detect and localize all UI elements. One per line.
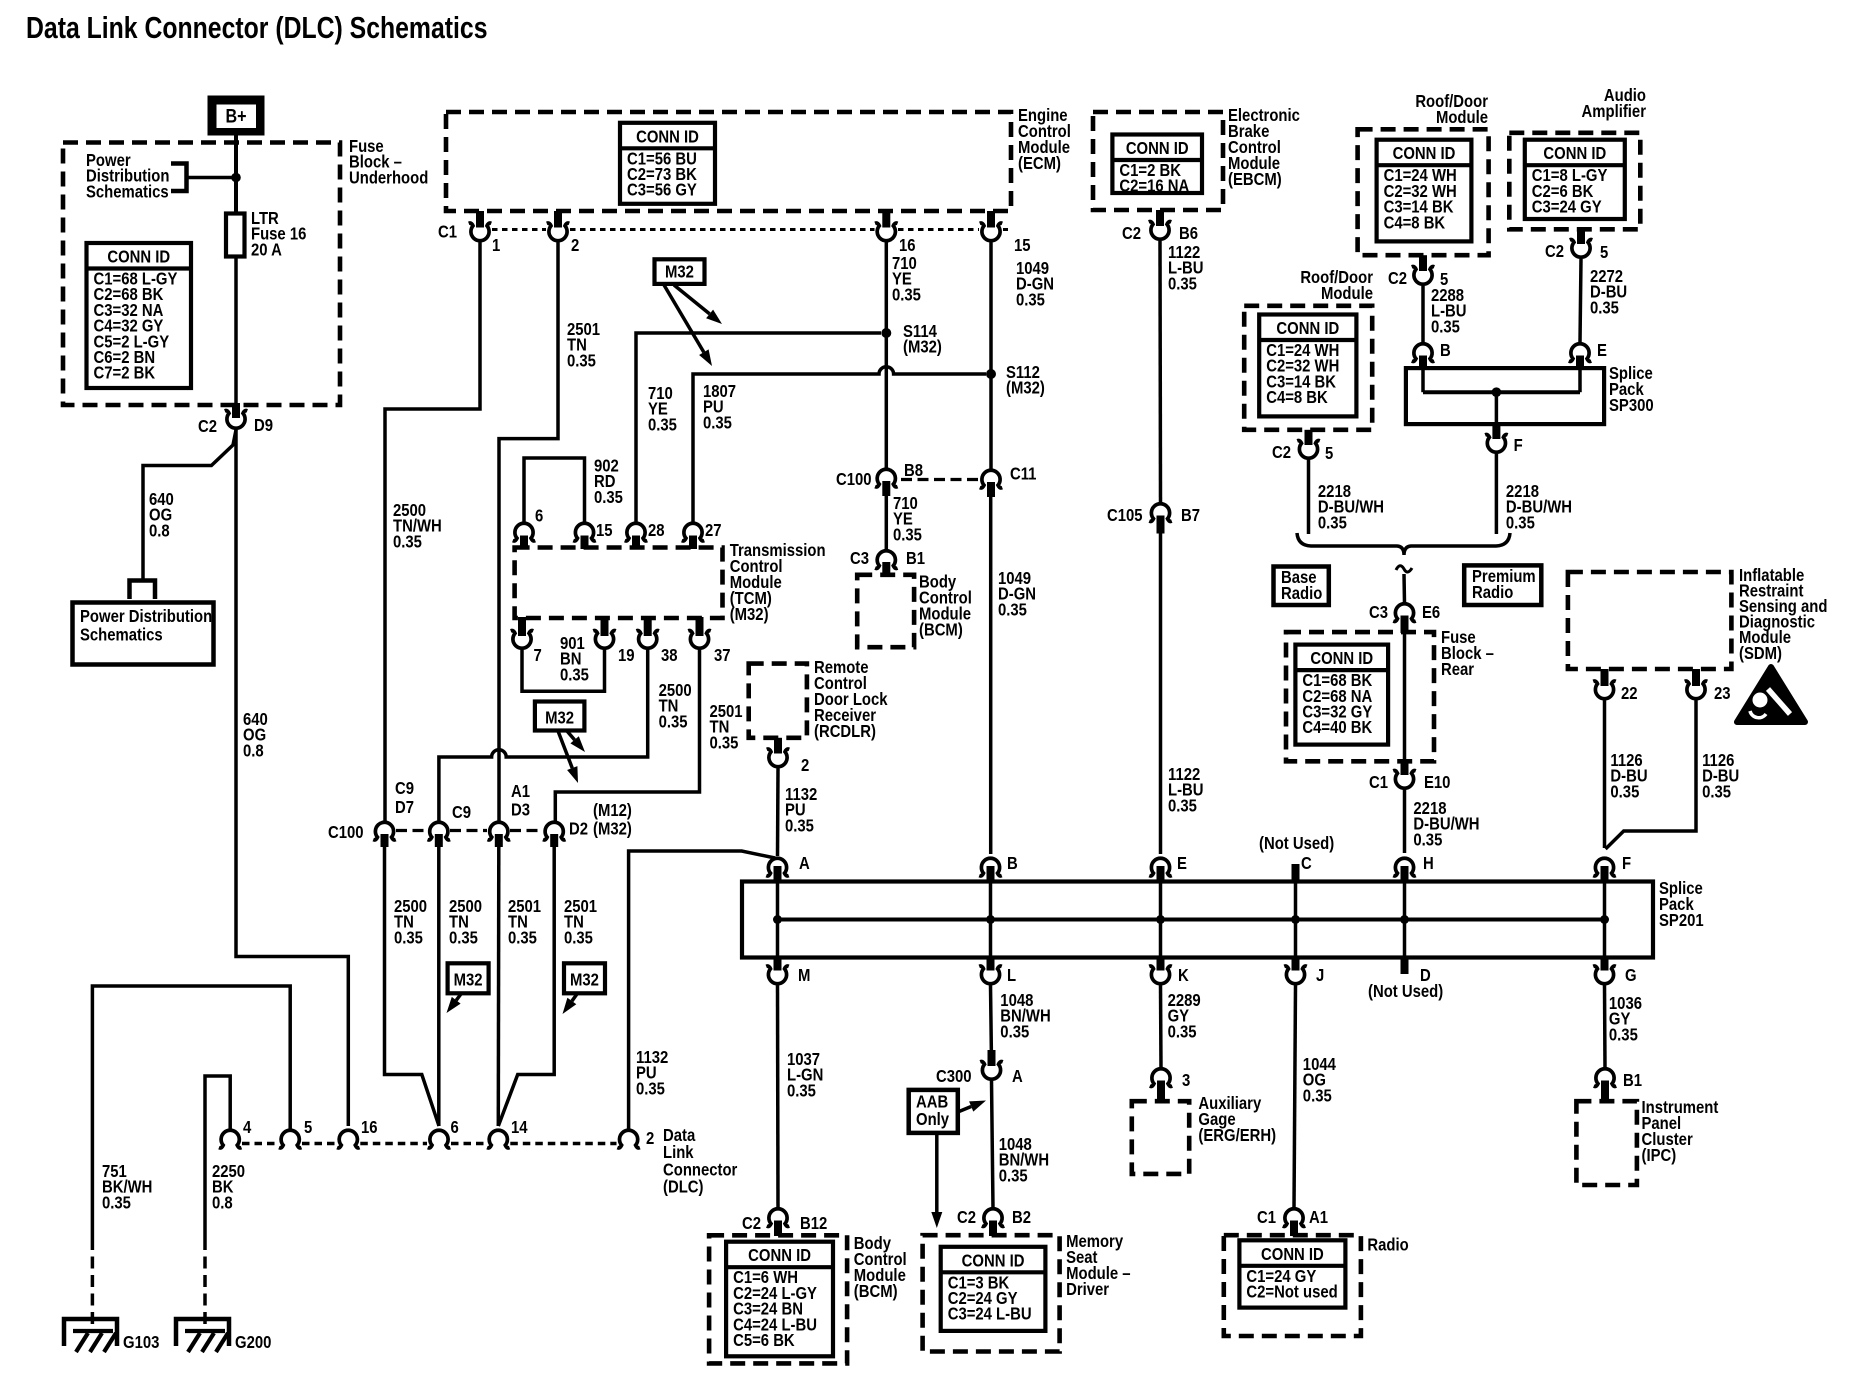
SP201 internal wire x=990.5 — [989, 883, 993, 956]
svg-text:20 A: 20 A — [251, 240, 282, 259]
wire 2500 TN C100 D7 to DLC pin6 (jog) — [385, 847, 440, 1126]
wire 2500 TN C100 C9 to DLC pin6 — [437, 847, 441, 1126]
svg-text:C11: C11 — [1010, 464, 1036, 483]
svg-text:J: J — [1316, 966, 1324, 985]
svg-text:19: 19 — [618, 646, 635, 665]
svg-text:B2: B2 — [1012, 1208, 1031, 1227]
splice option squiggle — [1396, 566, 1412, 572]
junction node on B+ wire — [231, 173, 241, 183]
SP201 bottom pin K cup — [1149, 966, 1172, 984]
TCM top pin 27 stub — [689, 536, 697, 550]
connector C1 E10 cup — [1393, 771, 1416, 789]
svg-text:C3=56 GY: C3=56 GY — [627, 181, 697, 200]
svg-text:0.35: 0.35 — [1590, 298, 1619, 317]
ground G103 — [64, 1319, 117, 1346]
inline connector C100 dashed line (right) — [901, 478, 979, 481]
module box Body Control Module (bottom) — [709, 1235, 847, 1363]
SP201 bottom pin J stub — [1292, 957, 1300, 971]
svg-text:(M32): (M32) — [903, 338, 942, 357]
EBCM C2/B6 cup — [1149, 222, 1172, 240]
TCM top pin 6 stub — [520, 536, 528, 550]
svg-text:22: 22 — [1621, 684, 1638, 703]
SP201 bottom pin G cup — [1593, 966, 1616, 984]
module box Roof/Door Module (lower) — [1244, 306, 1372, 430]
wire 1037 L-GN M to BCM — [776, 986, 780, 1209]
svg-text:C1: C1 — [1369, 773, 1388, 792]
callout box M32 (DLC right) — [564, 963, 605, 993]
connector C100 D2 stub — [550, 834, 558, 847]
svg-text:15: 15 — [1014, 236, 1031, 255]
TCM bottom pin 7 cup — [511, 631, 534, 649]
data link connector dashed face segment — [242, 1142, 279, 1146]
SP201 top pin A stub — [774, 866, 782, 882]
connector C1 A1 stub — [1290, 1221, 1298, 1237]
RCDLR pin 2 cup — [767, 749, 790, 767]
connector C300 A cup — [980, 1062, 1003, 1080]
wire 902 RD TCM pin6 to pin15 loop — [524, 458, 585, 522]
svg-text:E6: E6 — [1422, 603, 1440, 622]
svg-text:A1: A1 — [1309, 1208, 1328, 1227]
module box Transmission Control Module — [515, 548, 723, 619]
svg-text:B12: B12 — [800, 1214, 827, 1233]
svg-text:16: 16 — [361, 1118, 378, 1137]
splice SP300 pin B stub — [1419, 356, 1427, 370]
svg-text:G: G — [1625, 966, 1637, 985]
svg-text:G200: G200 — [235, 1333, 271, 1352]
arrow AAB to memory seat connector — [935, 1133, 939, 1212]
svg-text:C3=24 GY: C3=24 GY — [1532, 198, 1602, 217]
svg-text:(BCM): (BCM) — [854, 1282, 898, 1301]
callout box M32 (upper) — [655, 259, 705, 284]
svg-text:CONN ID: CONN ID — [107, 247, 170, 266]
audio amp C2/5 cup — [1570, 240, 1593, 258]
svg-text:Schematics: Schematics — [86, 182, 169, 201]
reference box Power Distribution Schematics — [73, 603, 214, 665]
svg-text:0.35: 0.35 — [648, 415, 677, 434]
SP201 bottom pin L stub — [987, 957, 995, 971]
svg-text:6: 6 — [535, 506, 543, 525]
conn id table roof/door lower — [1259, 315, 1356, 417]
wire TCM pin28 to S114 — [636, 333, 881, 522]
ground lead G103 dashed — [91, 1238, 95, 1326]
splice option brace — [1297, 533, 1510, 555]
SP201 bottom pin D stub — [1401, 957, 1409, 974]
inline connector C100 dashed line (left) — [396, 829, 427, 832]
ECM pin 1 stub — [476, 211, 484, 228]
SP201 bus junction x=990.5 — [986, 915, 995, 924]
wire 1036 GY G to IPC — [1603, 986, 1607, 1069]
svg-text:C300: C300 — [936, 1067, 972, 1086]
SP201 bus junction x=1404.5 — [1400, 915, 1409, 924]
svg-text:(IPC): (IPC) — [1642, 1146, 1677, 1165]
svg-text:(M12): (M12) — [593, 801, 632, 820]
roof/door lower C2/5 stub — [1305, 430, 1313, 445]
svg-text:H: H — [1423, 854, 1434, 873]
connector C100 D3 cup — [488, 822, 511, 840]
connector DLC pin 2 cup — [617, 1130, 640, 1148]
wire through fuse block rear — [1403, 633, 1407, 761]
SDM pin 22 cup — [1593, 681, 1616, 699]
wire 1049 D-GN C11 to splice B — [989, 497, 993, 854]
svg-text:C2: C2 — [742, 1214, 761, 1233]
svg-text:0.35: 0.35 — [393, 532, 422, 551]
wire 2289 GY K to aux gage — [1159, 986, 1163, 1069]
connector C105 B7 cup — [1149, 504, 1172, 522]
svg-text:M32: M32 — [454, 970, 483, 989]
svg-text:CONN ID: CONN ID — [636, 127, 699, 146]
wire 710 YE B8 to BCM C3/B1 — [885, 496, 889, 550]
junction S114 — [881, 328, 891, 338]
module box Engine Control Module — [446, 112, 1011, 211]
wire 1807 PU TCM pin27 to S112 (with hop) — [693, 367, 986, 522]
SP201 bottom pin M stub — [774, 957, 782, 971]
TCM top pin 28 stub — [632, 536, 640, 550]
svg-text:0.35: 0.35 — [1702, 782, 1731, 801]
SP201 internal wire x=1160.5 — [1159, 883, 1163, 956]
svg-text:C2: C2 — [1272, 443, 1291, 462]
warning triangle airbag — [1737, 667, 1805, 722]
svg-text:Amplifier: Amplifier — [1582, 102, 1647, 121]
svg-text:0.35: 0.35 — [508, 928, 537, 947]
svg-text:C9: C9 — [395, 779, 414, 798]
svg-text:Only: Only — [916, 1110, 949, 1129]
connector C100 C9c cup — [428, 822, 451, 840]
wire 2288 L-BU to splice B — [1421, 286, 1425, 342]
svg-text:C2: C2 — [198, 417, 217, 436]
wire 640 OG to power distribution box (diagonal) — [143, 430, 236, 580]
svg-text:Power Distribution: Power Distribution — [80, 607, 212, 626]
connector C2 D9 cup — [225, 411, 248, 429]
connector C2 B12 cup — [767, 1209, 790, 1227]
svg-text:0.35: 0.35 — [787, 1081, 816, 1100]
svg-text:(M32): (M32) — [1006, 379, 1045, 398]
SP300 bus bar — [1423, 390, 1580, 394]
SDM pin 22 stub — [1601, 669, 1609, 686]
connector C3 B1 cup (BCM) — [875, 551, 898, 569]
svg-text:0.35: 0.35 — [1168, 796, 1197, 815]
connector C2 D9 stub — [232, 403, 240, 418]
splice SP300 pin E stub — [1576, 356, 1584, 370]
svg-text:Module: Module — [1321, 284, 1373, 303]
svg-text:C3: C3 — [850, 549, 869, 568]
svg-text:(ECM): (ECM) — [1018, 154, 1061, 173]
module box Fuse Block - Underhood — [63, 143, 340, 406]
arrow M32 to pin14 wire — [572, 994, 577, 1001]
svg-text:C2: C2 — [1122, 224, 1141, 243]
svg-text:B8: B8 — [904, 461, 923, 480]
svg-text:27: 27 — [705, 521, 722, 540]
svg-text:(EBCM): (EBCM) — [1228, 170, 1282, 189]
ECM pin 2 cup — [547, 223, 570, 241]
svg-text:D2: D2 — [569, 819, 588, 838]
svg-text:0.35: 0.35 — [1609, 1025, 1638, 1044]
connector C100 D3 stub — [495, 834, 503, 847]
svg-text:(M32): (M32) — [730, 605, 769, 624]
connector C3 E6 stub — [1401, 616, 1409, 634]
wire 2501 TN ECM pin2 to C100 D3 — [499, 243, 558, 822]
callout box AAB Only — [909, 1090, 958, 1133]
svg-text:C1: C1 — [1257, 1208, 1276, 1227]
reference bracket power distribution schematics box — [130, 581, 156, 600]
svg-text:(Not Used): (Not Used) — [1368, 982, 1443, 1001]
conn id table BCM bottom — [726, 1242, 833, 1357]
connector C100 D2 cup — [543, 822, 566, 840]
svg-text:23: 23 — [1714, 684, 1731, 703]
svg-text:Module: Module — [1436, 108, 1488, 127]
svg-text:CONN ID: CONN ID — [1310, 649, 1373, 668]
svg-text:0.35: 0.35 — [1413, 830, 1442, 849]
wire 1044 OG J to radio — [1294, 986, 1296, 1209]
svg-text:C2: C2 — [1388, 269, 1407, 288]
svg-text:B: B — [1440, 341, 1451, 360]
splice SP300 pin E cup — [1569, 344, 1592, 362]
TCM bottom pin 19 cup — [593, 631, 616, 649]
svg-text:D9: D9 — [254, 416, 273, 435]
svg-text:0.35: 0.35 — [785, 816, 814, 835]
module box Instrument Panel Cluster — [1576, 1101, 1637, 1185]
svg-text:C100: C100 — [836, 470, 872, 489]
arrow M32 to pin37 wire — [558, 731, 572, 768]
svg-text:C2: C2 — [1545, 242, 1564, 261]
svg-text:M: M — [798, 966, 810, 985]
svg-text:M32: M32 — [545, 708, 574, 727]
SP201 top pin F cup — [1593, 858, 1616, 876]
connector C100 C11 cup — [980, 470, 1003, 488]
svg-text:4: 4 — [243, 1118, 251, 1137]
module box Radio — [1224, 1235, 1361, 1336]
svg-text:0.35: 0.35 — [1610, 782, 1639, 801]
svg-text:2: 2 — [801, 756, 809, 775]
svg-text:0.35: 0.35 — [102, 1193, 131, 1212]
module box Body Control Module (middle) — [857, 575, 914, 647]
TCM top pin 15 cup — [573, 523, 596, 541]
SP300 internal wire E — [1578, 369, 1582, 392]
wire 1049 D-GN ECM pin15 to C11 — [989, 243, 993, 469]
svg-text:0.35: 0.35 — [1016, 290, 1045, 309]
arrow M32 to pin38 wire — [567, 731, 575, 740]
wire 640 OG fuse feed to DLC pin16 — [236, 430, 348, 1126]
roof/door lower C2/5 cup — [1297, 441, 1320, 459]
SP201 top pin H stub — [1401, 866, 1409, 882]
SP201 bus junction x=1160.5 — [1156, 915, 1165, 924]
svg-text:0.35: 0.35 — [567, 351, 596, 370]
svg-text:(M32): (M32) — [593, 819, 632, 838]
SP201 bottom pin K stub — [1157, 957, 1165, 971]
svg-text:CONN ID: CONN ID — [1126, 139, 1189, 158]
SP201 top pin H cup — [1393, 858, 1416, 876]
svg-text:0.35: 0.35 — [560, 665, 589, 684]
svg-text:C9: C9 — [452, 803, 471, 822]
svg-text:Underhood: Underhood — [349, 168, 428, 187]
svg-text:5: 5 — [304, 1118, 312, 1137]
ECM connector row dotted line segment — [570, 228, 875, 231]
conn id table radio — [1239, 1240, 1345, 1307]
data link connector dashed face segment — [510, 1142, 616, 1146]
connector C100 C9c stub — [435, 834, 443, 847]
connector C100 B8 cup — [875, 469, 898, 487]
svg-text:0.35: 0.35 — [636, 1079, 665, 1098]
data link connector dashed face segment — [360, 1142, 427, 1146]
SP201 internal wire x=1295.5 — [1294, 883, 1298, 956]
SP300 internal wire B — [1421, 369, 1425, 392]
junction S112 — [986, 369, 996, 379]
svg-text:5: 5 — [1600, 243, 1608, 262]
SP201 internal wire x=777.5 — [776, 883, 780, 956]
svg-text:F: F — [1622, 854, 1631, 873]
svg-text:0.35: 0.35 — [659, 712, 688, 731]
audio amp C2/5 stub — [1577, 229, 1585, 244]
conn id table fuse block rear — [1295, 645, 1388, 745]
svg-text:C100: C100 — [328, 823, 364, 842]
svg-text:Schematics: Schematics — [80, 625, 163, 644]
wire 1122 L-BU C105 to splice E — [1159, 534, 1163, 855]
conn id table roof/door upper — [1377, 140, 1472, 242]
svg-text:C5=6 BK: C5=6 BK — [733, 1331, 795, 1350]
svg-text:SP300: SP300 — [1609, 396, 1654, 415]
svg-text:0.35: 0.35 — [1168, 274, 1197, 293]
svg-text:5: 5 — [1325, 444, 1333, 463]
svg-text:0.35: 0.35 — [999, 1166, 1028, 1185]
svg-text:(Not Used): (Not Used) — [1259, 834, 1334, 853]
ECM connector row dotted line segment — [492, 228, 546, 231]
SDM pin 23 stub — [1692, 669, 1700, 686]
data link connector dashed face segment — [451, 1142, 487, 1146]
wire fuse to connector C2/D9 — [234, 257, 238, 419]
svg-text:Radio: Radio — [1472, 583, 1513, 602]
module box Remote Control Door Lock Receiver — [749, 664, 807, 738]
wire 901 BN TCM pin7 to pin19 loop — [522, 650, 605, 691]
ECM pin 1 cup — [469, 223, 492, 241]
svg-text:E10: E10 — [1424, 773, 1450, 792]
svg-text:7: 7 — [534, 646, 542, 665]
roof/door C2/5 cup — [1412, 267, 1435, 285]
connector C100 C11 stub — [987, 482, 995, 497]
svg-text:28: 28 — [648, 521, 665, 540]
svg-text:G103: G103 — [123, 1333, 159, 1352]
ECM connector row dotted line segment — [1003, 228, 1008, 231]
module box Inflatable Restraint SDM — [1568, 572, 1732, 669]
SP201 bottom pin J cup — [1284, 966, 1307, 984]
callout box M32 (DLC left) — [448, 963, 489, 993]
SP201 top pin B stub — [987, 866, 995, 882]
connector C2 B2 stub — [989, 1221, 997, 1237]
wire 1132 PU RCDLR to splice A — [776, 769, 780, 857]
power feed B+ symbol — [208, 96, 265, 136]
svg-text:C4=8 BK: C4=8 BK — [1384, 213, 1446, 232]
TCM bottom pin 7 stub — [518, 617, 526, 636]
wire 2218 D-BU/WH to brace — [1307, 460, 1311, 534]
connector C300 A stub — [988, 1050, 996, 1066]
wire 1132 PU DLC pin2 to splice A — [629, 851, 775, 1129]
svg-text:0.35: 0.35 — [1000, 1022, 1029, 1041]
connector C105 B7 stub — [1157, 516, 1165, 534]
TCM bottom pin 19 stub — [601, 617, 609, 636]
svg-text:C4=40 BK: C4=40 BK — [1302, 718, 1372, 737]
svg-text:C2: C2 — [957, 1208, 976, 1227]
svg-text:(DLC): (DLC) — [663, 1178, 703, 1197]
svg-text:CONN ID: CONN ID — [1393, 144, 1456, 163]
svg-text:37: 37 — [714, 646, 731, 665]
svg-text:6: 6 — [451, 1118, 459, 1137]
DLC pin 4 cup — [219, 1130, 242, 1148]
connector C100 D7 cup — [373, 822, 396, 840]
SP201 top pin B cup — [979, 858, 1002, 876]
connector C2 B12 stub — [774, 1221, 782, 1237]
ECM connector row dotted line segment — [898, 228, 979, 231]
wire B+ to fuse LTR — [234, 135, 238, 214]
svg-text:C7=2 BK: C7=2 BK — [94, 364, 156, 383]
SP201 bottom pin L cup — [979, 966, 1002, 984]
connector C2 B2 cup — [982, 1209, 1005, 1227]
splice pack SP300 box — [1406, 368, 1604, 424]
svg-text:SP201: SP201 — [1659, 911, 1704, 930]
svg-text:E: E — [1177, 854, 1187, 873]
wire DLC pin5 to G103 column — [92, 986, 290, 1238]
svg-text:Data Link Connector (DLC) Sche: Data Link Connector (DLC) Schematics — [26, 10, 487, 44]
SDM pin 23 cup — [1685, 681, 1708, 699]
svg-text:L: L — [1007, 966, 1016, 985]
module box Memory Seat Module — [923, 1235, 1060, 1351]
svg-text:(ERG/ERH): (ERG/ERH) — [1198, 1126, 1276, 1145]
svg-text:Rear: Rear — [1441, 660, 1475, 679]
wire 1126 D-BU pin23 to splice F — [1606, 701, 1697, 850]
callout box M32 (middle) — [535, 702, 585, 731]
SP300 pin F stub — [1492, 424, 1500, 439]
svg-text:0.35: 0.35 — [710, 733, 739, 752]
svg-text:2: 2 — [571, 236, 579, 255]
wire 2218 D-BU/WH E10 to splice H — [1403, 790, 1407, 853]
svg-text:M32: M32 — [665, 262, 694, 281]
svg-text:M32: M32 — [570, 970, 599, 989]
svg-text:D3: D3 — [511, 800, 530, 819]
DLC pin 6 cup — [428, 1130, 451, 1148]
SP201 bus junction x=1295.5 — [1291, 915, 1300, 924]
ground G200 — [176, 1319, 229, 1346]
svg-text:0.35: 0.35 — [1506, 513, 1535, 532]
svg-text:E: E — [1597, 341, 1607, 360]
svg-text:(BCM): (BCM) — [919, 620, 963, 639]
data link connector dashed face segment — [302, 1142, 337, 1146]
reference bracket (power distribution) — [171, 164, 187, 192]
arrow AAB to C300 wire — [959, 1107, 971, 1112]
SP201 bottom pin G stub — [1601, 957, 1609, 971]
wire 1122 L-BU EBCM to C105 — [1158, 241, 1162, 502]
connector C100 B8 stub — [882, 481, 890, 496]
splice pack SP201 box — [742, 882, 1653, 958]
module box Audio Amplifier — [1509, 133, 1640, 230]
DLC pin 14 cup — [487, 1130, 510, 1148]
SP201 bus junction x=1604.5 — [1600, 915, 1609, 924]
TCM top pin 28 cup — [625, 523, 648, 541]
svg-text:(RCDLR): (RCDLR) — [814, 722, 876, 741]
TCM bottom pin 37 stub — [696, 617, 704, 636]
svg-text:C1: C1 — [438, 222, 457, 241]
svg-text:Radio: Radio — [1367, 1235, 1408, 1254]
svg-text:F: F — [1514, 436, 1523, 455]
svg-text:0.8: 0.8 — [243, 741, 264, 760]
svg-text:A: A — [1012, 1067, 1023, 1086]
SP201 top pin A cup — [766, 858, 789, 876]
svg-text:C3: C3 — [1369, 603, 1388, 622]
wire 2501 TN TCM pin37 to C100 D2 — [555, 650, 699, 821]
SP300 pin F cup — [1485, 435, 1508, 453]
wire 710 YE ECM pin16 to C100 B8 — [885, 243, 889, 468]
svg-text:D7: D7 — [395, 798, 414, 817]
connector 3 stub — [1157, 1081, 1165, 1103]
TCM top pin 6 cup — [513, 523, 536, 541]
conn id table EBCM — [1112, 135, 1202, 194]
TCM top pin 27 cup — [682, 523, 705, 541]
